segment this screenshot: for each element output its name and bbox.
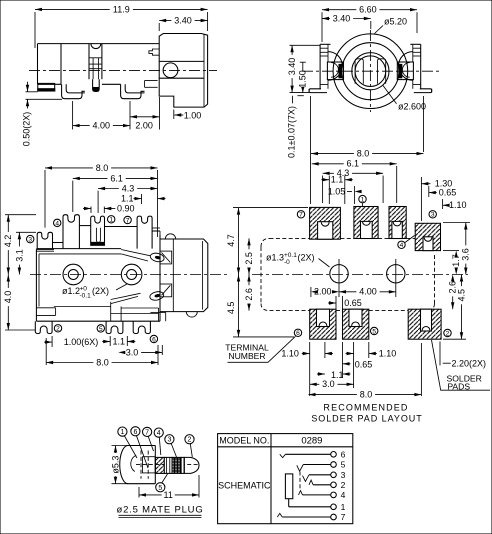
top tab arc <box>91 44 101 49</box>
svg-text:2.5: 2.5 <box>244 252 254 265</box>
ext 1.10L right <box>324 342 326 358</box>
arrow 1.1 bottom right <box>127 340 135 343</box>
long extension line from right foot <box>423 96 425 152</box>
svg-text:1.10: 1.10 <box>449 200 467 210</box>
leg 1 bracket outline <box>38 83 55 91</box>
deck line upper <box>36 248 121 250</box>
arrow 1.30 <box>421 182 430 185</box>
svg-text:5: 5 <box>99 326 103 333</box>
ledge left of finger 4 <box>53 242 64 244</box>
right lug plate inner upper <box>412 44 414 62</box>
svg-text:0.65: 0.65 <box>355 359 373 369</box>
lower spring box diagonal <box>162 285 171 295</box>
plug terminal 1 <box>118 427 127 436</box>
front view horizontal centerline <box>302 70 440 72</box>
barrel hole circle <box>163 63 178 78</box>
centerline of side view <box>29 69 217 71</box>
wall between fingers 4 and 1 <box>79 225 90 227</box>
terminal finger 1 <box>91 216 105 242</box>
right clip outer arc <box>399 52 413 81</box>
pcb hole 2 <box>387 265 405 283</box>
dim 2.5 <box>244 238 254 274</box>
svg-text:4.5: 4.5 <box>226 302 236 315</box>
tick 1.10 top <box>442 199 444 209</box>
svg-text:7: 7 <box>299 212 303 219</box>
svg-text:4.7: 4.7 <box>226 234 236 247</box>
tick 1.05 <box>354 186 356 204</box>
extension 4.3 left <box>322 176 324 204</box>
text dia 1.2 +0/-0.1 (2X) <box>62 285 109 299</box>
VIEW F: model table and schematic <box>218 434 353 524</box>
svg-text:4: 4 <box>55 220 59 227</box>
boot break arc outer <box>120 446 127 484</box>
dim 4.2 left <box>3 215 13 275</box>
svg-text:4.0: 4.0 <box>3 291 13 304</box>
arrow 1.1 pads left <box>321 178 329 181</box>
arrow for 1.00 <box>174 113 183 116</box>
dim 6.1 <box>73 173 158 183</box>
extension line for 2.00 <box>159 97 161 130</box>
right lug detail line 3 <box>413 55 421 57</box>
extension line left for 11.9 <box>34 12 36 48</box>
boot right edge <box>154 446 156 484</box>
svg-text:0.50(2X): 0.50(2X) <box>21 112 31 147</box>
dim 8.0 pads bottom <box>309 390 422 400</box>
block vertical 1 <box>110 302 112 321</box>
terminal number 5 <box>97 325 104 333</box>
left clip bar fill <box>339 64 342 77</box>
left lug detail line 3 <box>320 55 328 57</box>
ext 11 right <box>198 475 200 498</box>
leader plug 4 <box>159 437 161 455</box>
dashed corner top-left <box>261 238 270 247</box>
extension line for 4.00 left <box>72 101 74 130</box>
extension foot bottom <box>290 92 310 94</box>
svg-text:4.3: 4.3 <box>122 183 135 193</box>
svg-text:1: 1 <box>361 197 365 204</box>
svg-text:6: 6 <box>152 336 156 343</box>
dim 2.6 left <box>244 275 254 311</box>
barrel left nub tab <box>149 49 159 55</box>
svg-text:8.0: 8.0 <box>96 357 109 367</box>
svg-text:1.10: 1.10 <box>281 348 299 358</box>
svg-text:1.1: 1.1 <box>331 175 344 185</box>
lower spring contact line 2 <box>111 296 138 303</box>
schematic switch mark pin 7 <box>277 513 282 517</box>
plug ring contact striped <box>172 457 181 473</box>
leader plug 5 <box>162 474 168 483</box>
svg-text:4.00: 4.00 <box>359 287 377 297</box>
terminal finger 6 <box>133 321 150 333</box>
bottom step line 2 <box>36 314 55 316</box>
right contact slot in hole <box>378 59 386 84</box>
arrow 1.10R a <box>346 352 354 355</box>
plug terminal 2 <box>185 435 194 444</box>
svg-text:RECOMMENDED: RECOMMENDED <box>323 402 408 412</box>
lower spring contact box <box>160 284 172 297</box>
block vertical 2 <box>120 307 122 322</box>
svg-text:7: 7 <box>145 429 149 436</box>
terminal finger 4 <box>63 215 79 249</box>
schematic switch mark pin 2 <box>309 480 313 485</box>
svg-text:5: 5 <box>341 460 346 470</box>
right clip bar fill <box>399 64 402 77</box>
svg-text:11: 11 <box>164 490 173 500</box>
hole 1 center line <box>338 259 340 297</box>
plug centerline dashed <box>136 464 200 466</box>
svg-text:3.1: 3.1 <box>14 249 24 262</box>
terminal finger 2 <box>35 321 52 333</box>
svg-text:4.5: 4.5 <box>456 289 466 302</box>
block horizontal <box>111 313 159 315</box>
body left edge <box>37 44 39 85</box>
svg-text:3.40: 3.40 <box>287 58 297 76</box>
schematic jack body rectangle <box>285 474 292 499</box>
ext 8.0 bottom right <box>420 343 422 396</box>
dim 6.60 overall width <box>322 5 417 15</box>
dim 11.9 overall length <box>35 4 208 14</box>
svg-text:1.1: 1.1 <box>113 336 126 346</box>
upper spring contact line 1 <box>121 250 150 256</box>
schematic dashed coupling line <box>299 472 301 491</box>
body top edge <box>38 43 160 45</box>
svg-text:4: 4 <box>400 242 404 249</box>
svg-text:4: 4 <box>341 490 346 500</box>
tick 1.00 6X <box>51 336 53 347</box>
leader terminal number <box>228 336 296 362</box>
VIEW A: side elevation view of SMD jack <box>21 4 217 146</box>
underline 1 <box>119 514 202 516</box>
svg-text:SOLDER PAD LAYOUT: SOLDER PAD LAYOUT <box>311 414 422 424</box>
boot bottom edge <box>127 483 155 485</box>
mounting hole 1 outer <box>63 264 84 285</box>
extension pad D bottom right <box>443 250 459 252</box>
dashed outline right edge <box>434 255 436 304</box>
ledge line 2 <box>152 227 160 229</box>
svg-text:1: 1 <box>120 429 124 436</box>
terminal finger 7 <box>137 216 152 249</box>
dim 3.6 <box>461 223 471 275</box>
barrel circle <box>342 43 399 100</box>
barrel band upper line <box>159 60 204 62</box>
ext pad E left down <box>309 342 311 396</box>
svg-text:PADS: PADS <box>447 381 470 391</box>
svg-text:3: 3 <box>341 470 346 480</box>
arrow up for 0.50 <box>26 99 29 106</box>
svg-text:3.6: 3.6 <box>461 248 471 261</box>
upper spring contact line 2 <box>121 254 148 261</box>
leader terminal 4 <box>405 236 415 243</box>
flange circle dia 5.20 <box>333 34 408 109</box>
pad terminal number 2 <box>444 329 451 337</box>
dim 4.5 left <box>226 275 240 337</box>
dim 11 plug length <box>139 490 199 500</box>
svg-text:11.9: 11.9 <box>113 4 130 14</box>
pad terminal number 1 <box>359 195 366 203</box>
barrel rim line <box>202 241 204 310</box>
schematic pin 3 line and contact <box>309 470 346 480</box>
extension 4.3 right <box>382 176 384 204</box>
schematic switch mark pin 5 <box>297 465 304 472</box>
plug terminal 4 <box>154 428 163 437</box>
svg-text:4: 4 <box>157 430 161 437</box>
pad terminal number 4 <box>398 241 405 249</box>
text dia 1.3 +0.1/-0 (2X) <box>266 252 315 266</box>
leader for dia 2.600 <box>383 86 397 104</box>
leader for dia 1.2 <box>116 284 127 290</box>
svg-text:7: 7 <box>341 512 346 522</box>
barrel outline bottom view <box>160 239 208 312</box>
arrow 1.1 bottom left <box>102 340 110 343</box>
schematic pin 5 line and contact <box>303 460 345 470</box>
ext 5.3 bottom <box>112 483 129 485</box>
extension line right for 11.9 <box>207 12 209 31</box>
solder pad terminal 1 <box>354 207 378 239</box>
dim 3.0 pads <box>310 379 354 389</box>
boot inner rect <box>143 457 156 473</box>
hole rim circle dia 2.600 <box>352 53 389 90</box>
hole inner circle <box>355 56 386 87</box>
arrow 1.1 left part <box>134 197 142 200</box>
svg-text:NUMBER: NUMBER <box>228 351 265 361</box>
solder pad terminal 3 <box>415 223 440 250</box>
tick 1.1 bottom right <box>126 336 128 346</box>
leader plug 7 <box>148 436 153 451</box>
right lug plate outer <box>420 44 422 89</box>
svg-text:6: 6 <box>341 449 346 459</box>
terminal number 2 <box>54 325 61 333</box>
pad terminal number 5 <box>371 327 378 335</box>
leader plug 1 <box>125 436 138 458</box>
svg-text:1.00: 1.00 <box>184 110 202 120</box>
long extension line from left foot <box>310 96 312 204</box>
tick 0.65 pads left <box>335 296 337 309</box>
svg-text:8.0: 8.0 <box>96 163 109 173</box>
extension 8.0 bottom right <box>157 345 159 365</box>
dim dia 5.3 <box>110 446 120 484</box>
dashed outline top edge <box>270 237 416 239</box>
schematic pin 2 line and contact <box>313 480 346 490</box>
pad terminal number 3 <box>429 211 436 219</box>
left lug top edge <box>320 43 330 45</box>
left step line 2 <box>36 250 54 252</box>
lower spring contact line 1 <box>111 293 141 299</box>
svg-text:3.40: 3.40 <box>174 15 192 25</box>
extension right shared <box>157 170 159 237</box>
table outline <box>218 434 353 524</box>
boot break arc inner <box>131 456 136 472</box>
svg-text:4.00: 4.00 <box>93 121 111 131</box>
svg-text:SCHEMATIC: SCHEMATIC <box>218 480 271 490</box>
dim 2.6 right <box>448 275 458 310</box>
leader plug 6 <box>137 436 149 468</box>
arrow 1.1 bottom right <box>343 372 351 375</box>
plug groove 2 <box>181 457 184 473</box>
right clip box <box>397 62 413 80</box>
plug terminal 3 <box>165 435 174 444</box>
boot inner dashed 2 <box>147 451 149 479</box>
barrel bottom bump <box>186 312 197 318</box>
arrow 1.00 <box>44 340 52 343</box>
svg-text:MODEL NO.: MODEL NO. <box>219 435 269 445</box>
svg-text:2: 2 <box>188 437 192 444</box>
svg-text:2.6: 2.6 <box>244 288 254 301</box>
arrow 1.10 top <box>443 204 450 207</box>
extension 8.0 bottom left <box>45 338 47 365</box>
tick 0.90 right <box>103 207 105 214</box>
dim 4.0 left <box>3 275 13 331</box>
svg-text:0.65: 0.65 <box>439 188 457 198</box>
body internal vertical 2 <box>88 44 90 80</box>
cavity floor line <box>54 306 111 308</box>
svg-text:3.0: 3.0 <box>126 347 139 357</box>
dim 1.7 <box>451 251 461 275</box>
svg-text:ø5.20: ø5.20 <box>384 16 407 26</box>
body internal vertical 3 <box>101 44 103 80</box>
svg-text:2.00: 2.00 <box>135 121 153 131</box>
barrel outline <box>159 34 207 108</box>
body right edge <box>159 235 161 321</box>
svg-text:1.50: 1.50 <box>298 70 308 88</box>
svg-text:1.05: 1.05 <box>328 187 346 197</box>
finger 1 pin slot <box>96 228 100 243</box>
dim 8.0 bottom <box>46 357 158 367</box>
dim 3.40 barrel length <box>159 15 207 25</box>
barrel top bump <box>165 234 175 239</box>
svg-text:6: 6 <box>133 429 137 436</box>
schematic pin 4 line and contact <box>303 490 346 500</box>
table divider <box>270 434 272 524</box>
barrel rim inner line <box>203 34 205 107</box>
svg-text:2: 2 <box>341 480 346 490</box>
VIEW E: 2.5mm mate plug <box>110 427 203 518</box>
leg 2 gull-wing inner <box>66 84 85 93</box>
terminal number 7 <box>124 216 131 224</box>
schematic switch mark pin 3 <box>303 475 310 482</box>
svg-text:ø1.2: ø1.2 <box>62 286 80 296</box>
leader terminal 1 <box>362 203 364 206</box>
center pin left wall <box>92 58 94 79</box>
svg-text:-0: -0 <box>284 259 290 266</box>
dim 8.0 pads <box>311 149 424 159</box>
dim 1.50 <box>300 61 306 63</box>
svg-text:1.00(6X): 1.00(6X) <box>64 337 99 347</box>
arrow 1.10L b <box>325 352 333 355</box>
upper spring contact box <box>160 251 172 264</box>
tick 1.1 <box>141 194 143 204</box>
dim 4.7 <box>226 208 240 275</box>
body left edge inner <box>38 254 40 307</box>
svg-text:6: 6 <box>296 330 300 337</box>
wall between fingers 1 and 7 <box>105 226 138 228</box>
extension 6.1 right <box>396 166 398 203</box>
schematic pin 7 line and contact <box>282 512 345 522</box>
dim 4.00 hole spacing <box>339 287 396 297</box>
plug sleeve section hatched <box>155 457 164 473</box>
extension for 6.1 left <box>72 181 74 212</box>
extension left for 6.60 <box>321 12 323 42</box>
center pin bar 1 <box>89 57 102 59</box>
terminal number 3 <box>27 235 34 243</box>
svg-text:0.90: 0.90 <box>117 203 135 213</box>
right lug detail line top <box>413 47 421 49</box>
right clip inner arc <box>402 63 409 78</box>
solder pad terminal 2 <box>408 309 441 339</box>
arrow 1.10L <box>302 352 310 355</box>
svg-text:0.1±0.07(7X): 0.1±0.07(7X) <box>287 106 297 158</box>
svg-text:6.60: 6.60 <box>359 5 377 15</box>
svg-text:2: 2 <box>446 330 450 337</box>
left clip box <box>327 62 343 80</box>
svg-text:0289: 0289 <box>301 436 322 447</box>
terminal finger 3 <box>37 232 52 249</box>
tick 2.00 left <box>310 287 312 297</box>
VIEW B: front view of jack with mounting lugs <box>287 5 440 158</box>
leader for dia 1.3 <box>319 259 330 268</box>
arrow 1.05 <box>355 190 362 193</box>
upper spring box diagonal <box>162 253 171 263</box>
extension line foot bottom for 0.50 <box>26 98 63 100</box>
svg-text:1.1: 1.1 <box>121 194 134 204</box>
body bottom edge <box>36 320 160 322</box>
extension for lug top <box>290 44 321 46</box>
dashed corner bottom-right <box>426 304 435 311</box>
extension finger top left <box>5 214 36 216</box>
body bottom edge left segment <box>38 83 62 85</box>
solder pad terminal 6 <box>310 309 336 339</box>
step right of finger 6 <box>150 311 165 313</box>
plug ring groove <box>164 457 172 473</box>
right lug detail line bottom <box>413 84 421 86</box>
terminal number 4 <box>54 219 61 227</box>
dashed outline left edge <box>260 247 262 304</box>
leader solder pads <box>432 340 491 390</box>
leg 2 gull-wing outer <box>62 84 85 98</box>
svg-text:ø2.5 MATE PLUG: ø2.5 MATE PLUG <box>116 504 203 515</box>
arrow 0.65 left <box>328 301 336 304</box>
right lug plate inner lower <box>412 80 414 89</box>
dashed outline bottom edge <box>270 310 409 312</box>
svg-text:7: 7 <box>126 217 130 224</box>
ext 2.20 right <box>439 342 441 366</box>
schematic switch mark pin 6 <box>280 454 286 457</box>
left lug detail line 2 <box>320 51 328 53</box>
left foot <box>309 89 327 93</box>
extension for 4.3 left <box>97 191 99 213</box>
ledge right of finger 7 <box>152 230 160 232</box>
dashed corner bottom-left <box>261 304 270 311</box>
plug tip <box>184 457 199 473</box>
arrow 0.90 left <box>83 207 91 210</box>
mounting hole 2 inner <box>127 270 137 280</box>
solder pad terminal 7 <box>310 207 341 239</box>
bottom step line 1 <box>36 307 55 309</box>
dim 6.1 pads <box>312 159 397 169</box>
svg-text:3: 3 <box>431 212 435 219</box>
boot inner dashed 1 <box>140 451 142 479</box>
left step line 1 <box>36 248 54 250</box>
boot top edge <box>127 445 155 447</box>
tick 1.1 bottom left <box>109 336 111 346</box>
svg-text:3.40: 3.40 <box>333 13 351 23</box>
center pin bar 3 <box>89 68 102 70</box>
VIEW C: bottom view with terminals <box>3 163 229 368</box>
left lug plate outer <box>319 44 321 89</box>
terminal number 6 <box>150 335 157 343</box>
pad terminal number 7 <box>297 211 304 219</box>
svg-text:3: 3 <box>28 237 32 244</box>
dim 4.5 right <box>456 275 466 340</box>
